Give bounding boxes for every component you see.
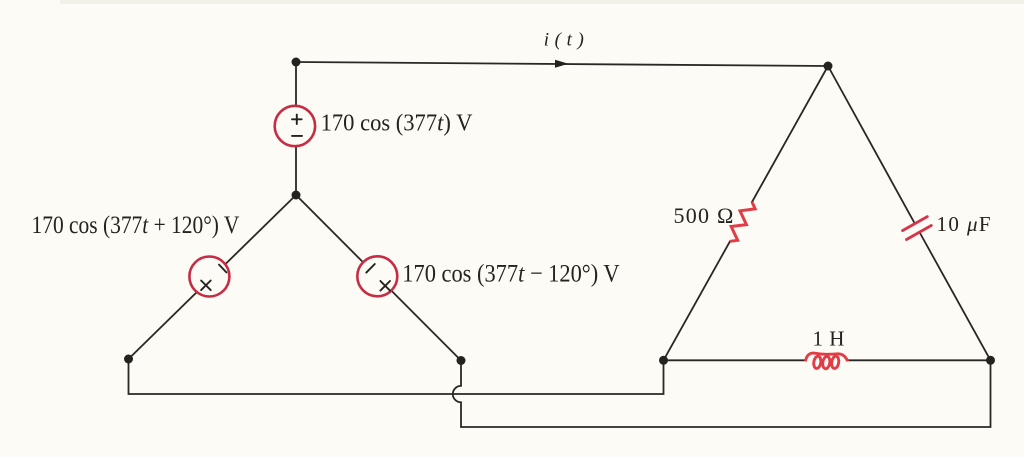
- svg-text:170 cos (377t − 120°) V: 170 cos (377t − 120°) V: [402, 260, 619, 287]
- svg-text:500 Ω: 500 Ω: [674, 203, 735, 228]
- svg-text:170 cos (377t) V: 170 cos (377t) V: [321, 110, 473, 137]
- svg-text:i(t): i(t): [544, 30, 590, 51]
- svg-text:10 μF: 10 μF: [937, 212, 993, 236]
- svg-text:170 cos (377t + 120°) V: 170 cos (377t + 120°) V: [32, 212, 240, 240]
- svg-text:1 H: 1 H: [813, 327, 845, 351]
